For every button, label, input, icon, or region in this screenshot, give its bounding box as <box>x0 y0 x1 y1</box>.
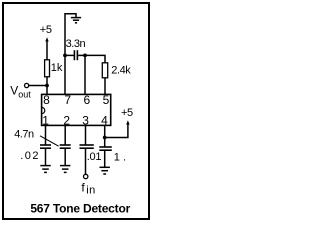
svg-text:.01: .01 <box>87 151 102 163</box>
wire 1k bottom to IC pin 8 <box>46 77 48 95</box>
ground below pin4 cap <box>100 167 110 174</box>
wire IC pin 7 up to ground <box>65 14 76 95</box>
svg-text:3.3n: 3.3n <box>66 38 86 50</box>
wire pin 6 stub <box>84 55 86 94</box>
wire pin 2 down <box>64 125 66 145</box>
wire Vout to junction <box>29 85 47 87</box>
svg-text:in: in <box>86 185 95 197</box>
svg-text:4.7n: 4.7n <box>14 128 34 140</box>
svg-text:2: 2 <box>63 114 70 128</box>
svg-text:out: out <box>18 90 31 100</box>
resistor 2.4k <box>102 63 131 78</box>
power +5 right <box>121 107 133 125</box>
svg-text:2.4k: 2.4k <box>111 65 131 77</box>
node f_in terminal <box>81 174 95 196</box>
svg-text:5: 5 <box>103 93 110 107</box>
power +5 left <box>40 24 52 60</box>
ground below pin2 cap <box>60 166 70 173</box>
wire pin 3 down <box>85 125 87 145</box>
wire pin 1 down <box>45 125 47 145</box>
svg-text:7: 7 <box>64 93 71 107</box>
wire junction to 2.4k top <box>85 55 105 63</box>
node Vout terminal <box>10 83 31 99</box>
value label 4.7n with leader <box>14 128 58 146</box>
node junction pin4 <box>103 136 107 140</box>
ground top <box>71 18 81 23</box>
capacitor 3.3n <box>65 38 86 60</box>
svg-text:+5: +5 <box>40 24 52 36</box>
svg-text:.02: .02 <box>20 150 40 162</box>
node junction 3.3n / pin6 <box>83 54 87 58</box>
svg-text:1k: 1k <box>51 62 63 74</box>
svg-text:1 .: 1 . <box>114 152 126 164</box>
capacitor .02 on pin 1 <box>40 145 51 165</box>
capacitor .01 on pin 3 <box>80 145 94 174</box>
svg-text:8: 8 <box>43 93 50 107</box>
svg-text:V: V <box>10 84 18 98</box>
resistor 1k <box>45 60 63 77</box>
capacitor 1. on pin 4 <box>99 138 112 167</box>
ground below pin1 cap <box>40 166 50 173</box>
capacitor 4.7n on pin 2 <box>60 145 71 165</box>
op-amp / IC U1 LM567 body <box>42 94 111 125</box>
svg-text:+5: +5 <box>121 107 133 119</box>
svg-text:6: 6 <box>83 93 90 107</box>
wire pin 4 down <box>104 125 106 139</box>
wire pin4 junction to +5 arrow <box>105 124 128 138</box>
wire 2.4k bottom to IC pin 5 <box>104 78 106 95</box>
node Vout junction <box>45 84 49 88</box>
svg-text:567 Tone Detector: 567 Tone Detector <box>30 202 130 216</box>
node junction ground wire / 3.3n <box>63 54 67 58</box>
